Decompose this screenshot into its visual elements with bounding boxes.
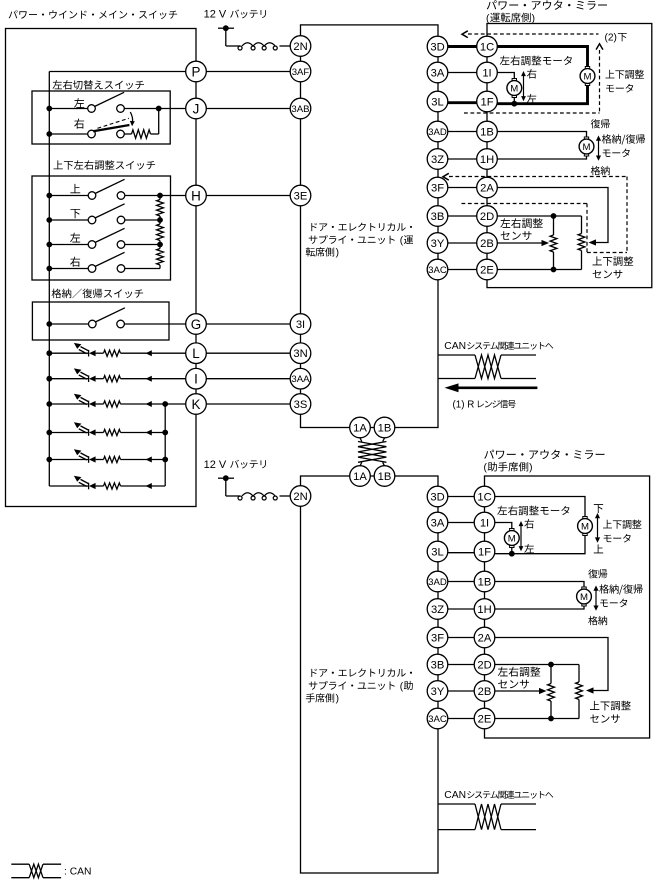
connector 2E (driver) xyxy=(477,259,498,280)
svg-text:G: G xyxy=(191,317,201,332)
label パワー・ウインド・メイン・スイッチ xyxy=(9,10,177,19)
connector 2B (passenger) xyxy=(474,681,495,702)
label 転席側) (driver line3) xyxy=(306,247,334,256)
connector 3AD (passenger) xyxy=(427,571,448,592)
connector 3AD (driver) xyxy=(427,121,448,142)
legend CAN twisted pair symbol xyxy=(11,863,29,865)
label 復帰 xyxy=(588,569,607,578)
connector 2A (passenger) xyxy=(474,627,495,648)
connector 2D (driver) xyxy=(477,206,498,227)
wire: LED branch vertical xyxy=(164,404,166,486)
label 格納／復帰スイッチ xyxy=(52,289,144,299)
connector 3N xyxy=(290,343,311,364)
connector I xyxy=(186,368,207,389)
label 右 xyxy=(70,257,80,267)
svg-text:1I: 1I xyxy=(482,67,491,79)
connector 1F (passenger) xyxy=(474,541,495,562)
svg-text:H: H xyxy=(191,188,201,203)
label 上 xyxy=(70,184,80,193)
wire: resistor to right (with direction arrow) xyxy=(121,459,166,461)
node: bus junction y=432.5 xyxy=(46,430,52,436)
label 左右調整 (sensor) xyxy=(500,218,543,228)
node: junction 2E sensor xyxy=(551,267,557,273)
svg-text:3Y: 3Y xyxy=(431,238,445,250)
LED diode xyxy=(88,456,90,463)
node: junction on 1F line xyxy=(509,551,515,557)
wire: ladder to H xyxy=(160,195,186,197)
selector switch box 左右切替えスイッチ xyxy=(32,91,170,144)
resistor LED row xyxy=(104,483,121,489)
svg-text:3F: 3F xyxy=(431,182,444,194)
svg-text:M: M xyxy=(508,533,516,544)
wire: 3Y to 2B xyxy=(448,242,477,244)
wire: 3Z to 1H xyxy=(448,608,474,610)
connector 3L (passenger) xyxy=(427,541,448,562)
svg-text:M: M xyxy=(580,592,588,603)
connector 1H (driver) xyxy=(477,149,498,170)
connector 2A (driver) xyxy=(477,177,498,198)
svg-text:M: M xyxy=(510,83,518,94)
connector 3AC (passenger) xyxy=(427,708,448,729)
switch 右 (closed) xyxy=(88,130,96,138)
connector 3D (passenger) xyxy=(427,486,448,507)
label 左右調整モータ xyxy=(497,506,569,516)
arrow 右/左 direction xyxy=(523,75,525,98)
wire: left-right motor to 1F line xyxy=(513,98,515,104)
svg-text:1B: 1B xyxy=(480,126,494,138)
wire: up-down motor to 1F line xyxy=(495,536,585,554)
connector 3Y (passenger) xyxy=(427,681,448,702)
svg-text:3A: 3A xyxy=(431,517,445,529)
arrow 下/上 direction xyxy=(597,517,599,540)
motor M 格納/復帰モータ (driver) xyxy=(579,137,594,156)
label 右 xyxy=(527,69,537,79)
arrow 復帰/格納 direction xyxy=(595,589,597,608)
motor M 上下調整モータ (driver) xyxy=(580,67,595,86)
svg-text:3AC: 3AC xyxy=(428,265,447,276)
LED diode xyxy=(88,429,90,436)
wire: 3B to 2D xyxy=(448,215,477,217)
node: bus junction 左 row xyxy=(46,242,52,248)
svg-text:3E: 3E xyxy=(294,190,308,202)
wire: 1I to left-right motor xyxy=(497,73,514,79)
svg-text:2E: 2E xyxy=(480,264,494,276)
node: junction on 1F line xyxy=(511,101,517,107)
sensor resistor 左右調整センサ xyxy=(550,665,552,684)
resistor LED row xyxy=(104,376,121,382)
motor M 左右調整モータ (passenger) xyxy=(504,529,519,548)
CAN twisted pair upper line xyxy=(438,803,475,805)
connector 3A (driver) xyxy=(427,62,448,83)
label 左 xyxy=(524,544,534,553)
sensor resistor 上下調整センサ xyxy=(578,665,580,683)
dashed memory loop vertical (motor) xyxy=(599,50,601,113)
fusible link (lower) xyxy=(226,495,240,497)
connector 1B (driver) xyxy=(477,121,498,142)
wire: bus to switch 上 xyxy=(49,195,88,197)
svg-text:): ) xyxy=(529,463,532,474)
wire: 3AC to 2E xyxy=(448,718,474,720)
door unit box (driver) ドア・エレクトリカル・サプライ・ユニット xyxy=(301,25,439,428)
label ドア・エレクトリカル・ (driver line1) xyxy=(311,223,412,232)
connector 3B (passenger) xyxy=(427,654,448,675)
label 格納 xyxy=(588,616,607,625)
svg-text:1B: 1B xyxy=(378,471,392,483)
LED diode xyxy=(88,350,90,357)
label サプライ・ユニット (運 (driver line2) xyxy=(309,235,395,244)
connector 1I (passenger) xyxy=(474,512,495,533)
connector 3Y (driver) xyxy=(427,233,448,254)
label 格納/復帰 xyxy=(599,584,642,594)
wire: 1C to up-down motor xyxy=(495,497,585,517)
wire: bus to LED xyxy=(49,352,88,354)
switch 右 actuation dashed lever xyxy=(98,118,129,128)
connector 3AC (driver) xyxy=(427,259,448,280)
connector G xyxy=(186,314,207,335)
CAN twisted pair crossing xyxy=(475,355,501,379)
label センサ (sensor) xyxy=(501,231,532,240)
node: ladder junction 下 xyxy=(157,217,163,223)
connector 1I (driver) xyxy=(477,62,498,83)
wire: 2D to sensors xyxy=(495,664,579,666)
label 復帰 xyxy=(591,119,610,128)
dashed memory arrow (2)下 top xyxy=(468,33,599,35)
svg-text:K: K xyxy=(192,397,201,412)
wire: 2E to sensors xyxy=(495,718,579,720)
svg-text:CAN: CAN xyxy=(444,790,466,801)
dashed memory loop (sensor) xyxy=(449,176,627,178)
label モータ xyxy=(604,534,631,543)
svg-text:1H: 1H xyxy=(477,604,491,616)
label センサ (v sensor) xyxy=(590,714,620,723)
arrow 右/左 direction xyxy=(520,525,522,548)
connector 1C (driver) xyxy=(477,36,498,57)
wire: bus to LED xyxy=(49,432,88,434)
svg-text:1C: 1C xyxy=(477,491,491,503)
fusible link (upper) xyxy=(226,45,240,47)
label モータ (retract) xyxy=(600,599,627,608)
svg-text:2N: 2N xyxy=(293,491,307,503)
label 上下調整 (sensor) xyxy=(590,701,631,711)
svg-text:3F: 3F xyxy=(431,632,444,644)
label 下 (up-down motor) xyxy=(594,504,603,513)
wire: 1B to retract motor xyxy=(497,132,586,137)
node: bus junction y=353.2 xyxy=(46,350,52,356)
node: bus junction G row xyxy=(46,321,52,327)
resistor ladder 左-右 xyxy=(159,245,161,249)
connector 3F (passenger) xyxy=(427,627,448,648)
switch 左 (open) xyxy=(88,241,96,249)
node: bus junction y=378.7 xyxy=(46,376,52,382)
svg-text:12 V: 12 V xyxy=(204,9,227,21)
wire: retract switch to G xyxy=(124,323,185,325)
svg-text:L: L xyxy=(192,346,199,361)
wire: bus to LED xyxy=(49,485,88,487)
mirror box パワー・アウタ・ミラー (passenger) xyxy=(485,476,650,738)
label 左右調整モータ xyxy=(500,56,572,66)
label 左右切替えスイッチ xyxy=(52,80,144,90)
retract switch box 格納／復帰スイッチ xyxy=(32,302,169,340)
CAN twisted pair upper line xyxy=(438,354,475,356)
wire: 3D to 1C xyxy=(448,496,474,498)
connector 3F (driver) xyxy=(427,177,448,198)
connector J xyxy=(186,98,207,119)
wire: 1B to retract motor xyxy=(495,582,584,587)
svg-text:1B: 1B xyxy=(478,576,492,588)
LED diode xyxy=(88,401,90,408)
svg-text:: CAN: : CAN xyxy=(64,866,91,877)
svg-text:M: M xyxy=(583,142,591,153)
adjust switch box 上下左右調整スイッチ xyxy=(32,176,171,280)
svg-text:1H: 1H xyxy=(480,154,494,166)
connector 1A (lower) xyxy=(350,466,371,487)
switch 右 motion arrow xyxy=(130,112,132,123)
connector 1H (passenger) xyxy=(474,599,495,620)
LED diode xyxy=(88,375,90,382)
connector 2D (passenger) xyxy=(474,654,495,675)
wire: K to 3S xyxy=(206,403,290,405)
wire: I to 3AA xyxy=(206,378,290,380)
sensor resistor 上下調整センサ xyxy=(581,216,583,234)
svg-text:1I: 1I xyxy=(480,517,489,529)
wire: bus to switch 右 xyxy=(49,268,88,270)
connector 3AB xyxy=(290,98,311,119)
wire: 3F to 2A xyxy=(448,187,477,189)
label 左 xyxy=(70,233,80,243)
connector 3A (passenger) xyxy=(427,512,448,533)
svg-text:3D: 3D xyxy=(430,41,444,53)
svg-text:I: I xyxy=(194,371,198,386)
wire: retract motor to 1H xyxy=(497,156,586,159)
CAN twisted pair crossing xyxy=(475,804,501,830)
resistor LED row xyxy=(104,350,121,356)
wire: bus to retract switch xyxy=(49,323,88,325)
svg-text:3AB: 3AB xyxy=(291,104,309,115)
connector 3S xyxy=(290,394,311,415)
dashed memory loop bottom (motor) xyxy=(464,112,600,114)
wire: bus to switch 下 xyxy=(49,219,88,221)
connector K xyxy=(186,394,207,415)
wire: 3AC to 2E xyxy=(448,269,477,271)
svg-text:M: M xyxy=(584,71,592,82)
node: bus junction 下 row xyxy=(46,217,52,223)
connector 3Z (driver) xyxy=(427,149,448,170)
connector 1B (lower) xyxy=(374,466,395,487)
switch 格納／復帰 (open) xyxy=(89,320,97,328)
wire: switch 上 to ladder xyxy=(125,195,160,197)
wire: switch 下 to ladder xyxy=(125,219,160,221)
connector 3AF xyxy=(290,61,311,82)
svg-text:3N: 3N xyxy=(293,348,307,360)
node: branch junction y=432.5 xyxy=(162,430,168,436)
svg-text:2B: 2B xyxy=(480,238,494,250)
wire: bus to LED xyxy=(49,403,88,405)
wire: bus to LED xyxy=(49,378,88,380)
label 格納/復帰 xyxy=(602,134,645,144)
svg-text:P: P xyxy=(192,64,201,79)
wire: 3D to 1C xyxy=(448,45,477,48)
label センサ (sensor) xyxy=(498,680,529,689)
connector 2N (lower) xyxy=(290,486,311,507)
label 右 xyxy=(524,519,534,529)
label 手席側) (passenger line3) xyxy=(306,693,334,702)
svg-text:2N: 2N xyxy=(293,41,307,53)
label モータ xyxy=(606,84,633,93)
label 下 xyxy=(70,209,80,218)
svg-text:3D: 3D xyxy=(430,491,444,503)
wire: switch 左 to ladder xyxy=(125,244,160,246)
wire: 3L to 1F xyxy=(448,101,477,104)
wire: 3Y to 2B xyxy=(448,690,474,692)
connector 2N (upper) xyxy=(290,36,311,57)
switch 下 (open) xyxy=(88,216,96,224)
svg-text:1C: 1C xyxy=(480,41,494,53)
connector 3D (driver) xyxy=(427,36,448,57)
svg-text:1F: 1F xyxy=(480,96,493,108)
connector 3AA xyxy=(290,368,311,389)
node: K row branch junction xyxy=(162,401,168,407)
svg-text:(: ( xyxy=(486,13,490,24)
R-range signal arrow xyxy=(457,386,537,389)
wire: 2A to vertical sensor wiper xyxy=(495,638,608,691)
wire: 2E to sensors xyxy=(497,269,581,271)
wire: 3Z to 1H xyxy=(448,158,477,160)
node: ladder junction 上 xyxy=(157,193,163,199)
wire: 2B to horizontal sensor wiper xyxy=(495,690,542,692)
svg-text:3B: 3B xyxy=(431,211,445,223)
label 左右調整 (sensor) xyxy=(498,667,541,677)
node: bus junction 右 row xyxy=(46,266,52,272)
wire: resistor to right (with direction arrow) xyxy=(121,403,186,405)
wire: resistor branch up to J row xyxy=(158,109,160,135)
switch 左 (open) xyxy=(88,105,96,113)
svg-text:): ) xyxy=(336,694,339,705)
wire: up-down motor to 1F line xyxy=(497,86,587,104)
resistor ladder 上-下 xyxy=(159,196,161,200)
svg-text:1A: 1A xyxy=(353,422,367,434)
node: bus junction y=404 xyxy=(46,401,52,407)
wire: G to 3I xyxy=(206,323,290,325)
svg-text:2E: 2E xyxy=(478,713,492,725)
wire: bus to switch 左 xyxy=(49,108,87,110)
svg-text:(: ( xyxy=(400,235,404,246)
node: junction 2D sensor xyxy=(551,213,557,219)
label 上下調整 (sensor) xyxy=(593,256,634,266)
connector 3E xyxy=(290,185,311,206)
svg-text:3AD: 3AD xyxy=(428,577,447,588)
wire: resistor to right (with direction arrow) xyxy=(121,432,166,434)
label パワー・アウタ・ミラー (driver) xyxy=(487,0,607,10)
wire: 3B to 2D xyxy=(448,664,474,666)
wire: H to 3E xyxy=(206,195,290,197)
wire: switch 左 to J xyxy=(124,108,185,110)
svg-text:(2): (2) xyxy=(605,33,617,44)
wire: bus to switch 左 xyxy=(49,244,88,246)
connector 1A (upper) xyxy=(350,417,371,438)
svg-text:3I: 3I xyxy=(296,319,305,331)
motor M 左右調整モータ (driver) xyxy=(507,79,522,98)
mirror box パワー・アウタ・ミラー (driver) xyxy=(487,24,652,288)
connector 3Z (passenger) xyxy=(427,599,448,620)
resistor LED row xyxy=(104,456,121,462)
svg-text:3B: 3B xyxy=(431,659,445,671)
main switch box パワー・ウインド・メイン・スイッチ xyxy=(6,29,197,507)
connector 3B (driver) xyxy=(427,206,448,227)
label ドア・エレクトリカル・ (passenger line1) xyxy=(311,668,412,677)
svg-text:(: ( xyxy=(400,681,404,692)
svg-text:): ) xyxy=(532,13,535,24)
svg-text:3Z: 3Z xyxy=(431,154,444,166)
label 左 xyxy=(74,98,84,108)
wire: resistor to right (with direction arrow) xyxy=(121,485,166,487)
wire: left bus vertical xyxy=(48,72,50,487)
svg-text:J: J xyxy=(193,101,200,116)
node: junction 2D sensor xyxy=(548,662,554,668)
wire: 3L to 1F xyxy=(448,552,474,554)
connector 2B (driver) xyxy=(477,233,498,254)
wire: 3A to 1I xyxy=(448,72,477,74)
node: bus junction 上 row xyxy=(46,193,52,199)
resistor LED row xyxy=(104,401,121,407)
wire: 3F to 2A xyxy=(448,637,474,639)
svg-text:3Y: 3Y xyxy=(431,686,445,698)
switch 右 (open) xyxy=(88,265,96,273)
node: bus junction y=459.5 xyxy=(46,457,52,463)
connector 1F (driver) xyxy=(477,91,498,112)
svg-text:2B: 2B xyxy=(478,686,492,698)
wire: bus to switch 右 xyxy=(49,133,87,135)
connector 1B (upper) xyxy=(374,417,395,438)
wire: 2B to horizontal sensor wiper xyxy=(497,242,544,244)
CAN twisted pair lower line xyxy=(438,829,475,831)
label モータ (retract) xyxy=(603,149,630,158)
node: branch junction y=459.5 xyxy=(162,457,168,463)
arrow 復帰/格納 direction xyxy=(598,139,600,158)
label 上下調整 xyxy=(606,70,644,79)
wire: 3A to 1I xyxy=(448,522,474,524)
label 上 (up-down motor) xyxy=(594,544,603,553)
connector 2E (passenger) xyxy=(474,708,495,729)
wire: P to 3AF xyxy=(206,71,290,73)
svg-text:3AD: 3AD xyxy=(428,127,447,138)
label 左 xyxy=(527,94,537,103)
label 上下調整 xyxy=(603,520,641,529)
svg-text:(1) R: (1) R xyxy=(453,399,475,410)
wire: retract motor to 1H xyxy=(495,606,584,609)
wire: bus to LED xyxy=(49,459,88,461)
connector H xyxy=(186,185,207,206)
wire: 2D to sensors xyxy=(497,215,581,217)
switch 上 (open) xyxy=(88,192,96,200)
resistor LED row xyxy=(104,429,121,435)
label センサ (v sensor) xyxy=(593,270,623,279)
connector P xyxy=(186,61,207,82)
wire: bus to connector P xyxy=(49,71,185,73)
svg-text:(: ( xyxy=(484,463,488,474)
connector 1C (passenger) xyxy=(474,486,495,507)
svg-text:3AF: 3AF xyxy=(292,67,310,78)
node: junction 2E sensor xyxy=(548,716,554,722)
node: bus junction 右 row xyxy=(46,131,52,137)
connector 3I xyxy=(290,314,311,335)
twisted pair 1A/1B interconnect xyxy=(360,438,362,442)
wire: J to 3AB xyxy=(206,108,290,110)
CAN twisted pair lower line xyxy=(438,378,475,380)
svg-text:12 V: 12 V xyxy=(204,459,227,471)
connector 1B (passenger) xyxy=(474,571,495,592)
wire: resistor to right (with direction arrow) xyxy=(121,378,186,380)
label サプライ・ユニット (助 (passenger line2) xyxy=(309,681,395,690)
